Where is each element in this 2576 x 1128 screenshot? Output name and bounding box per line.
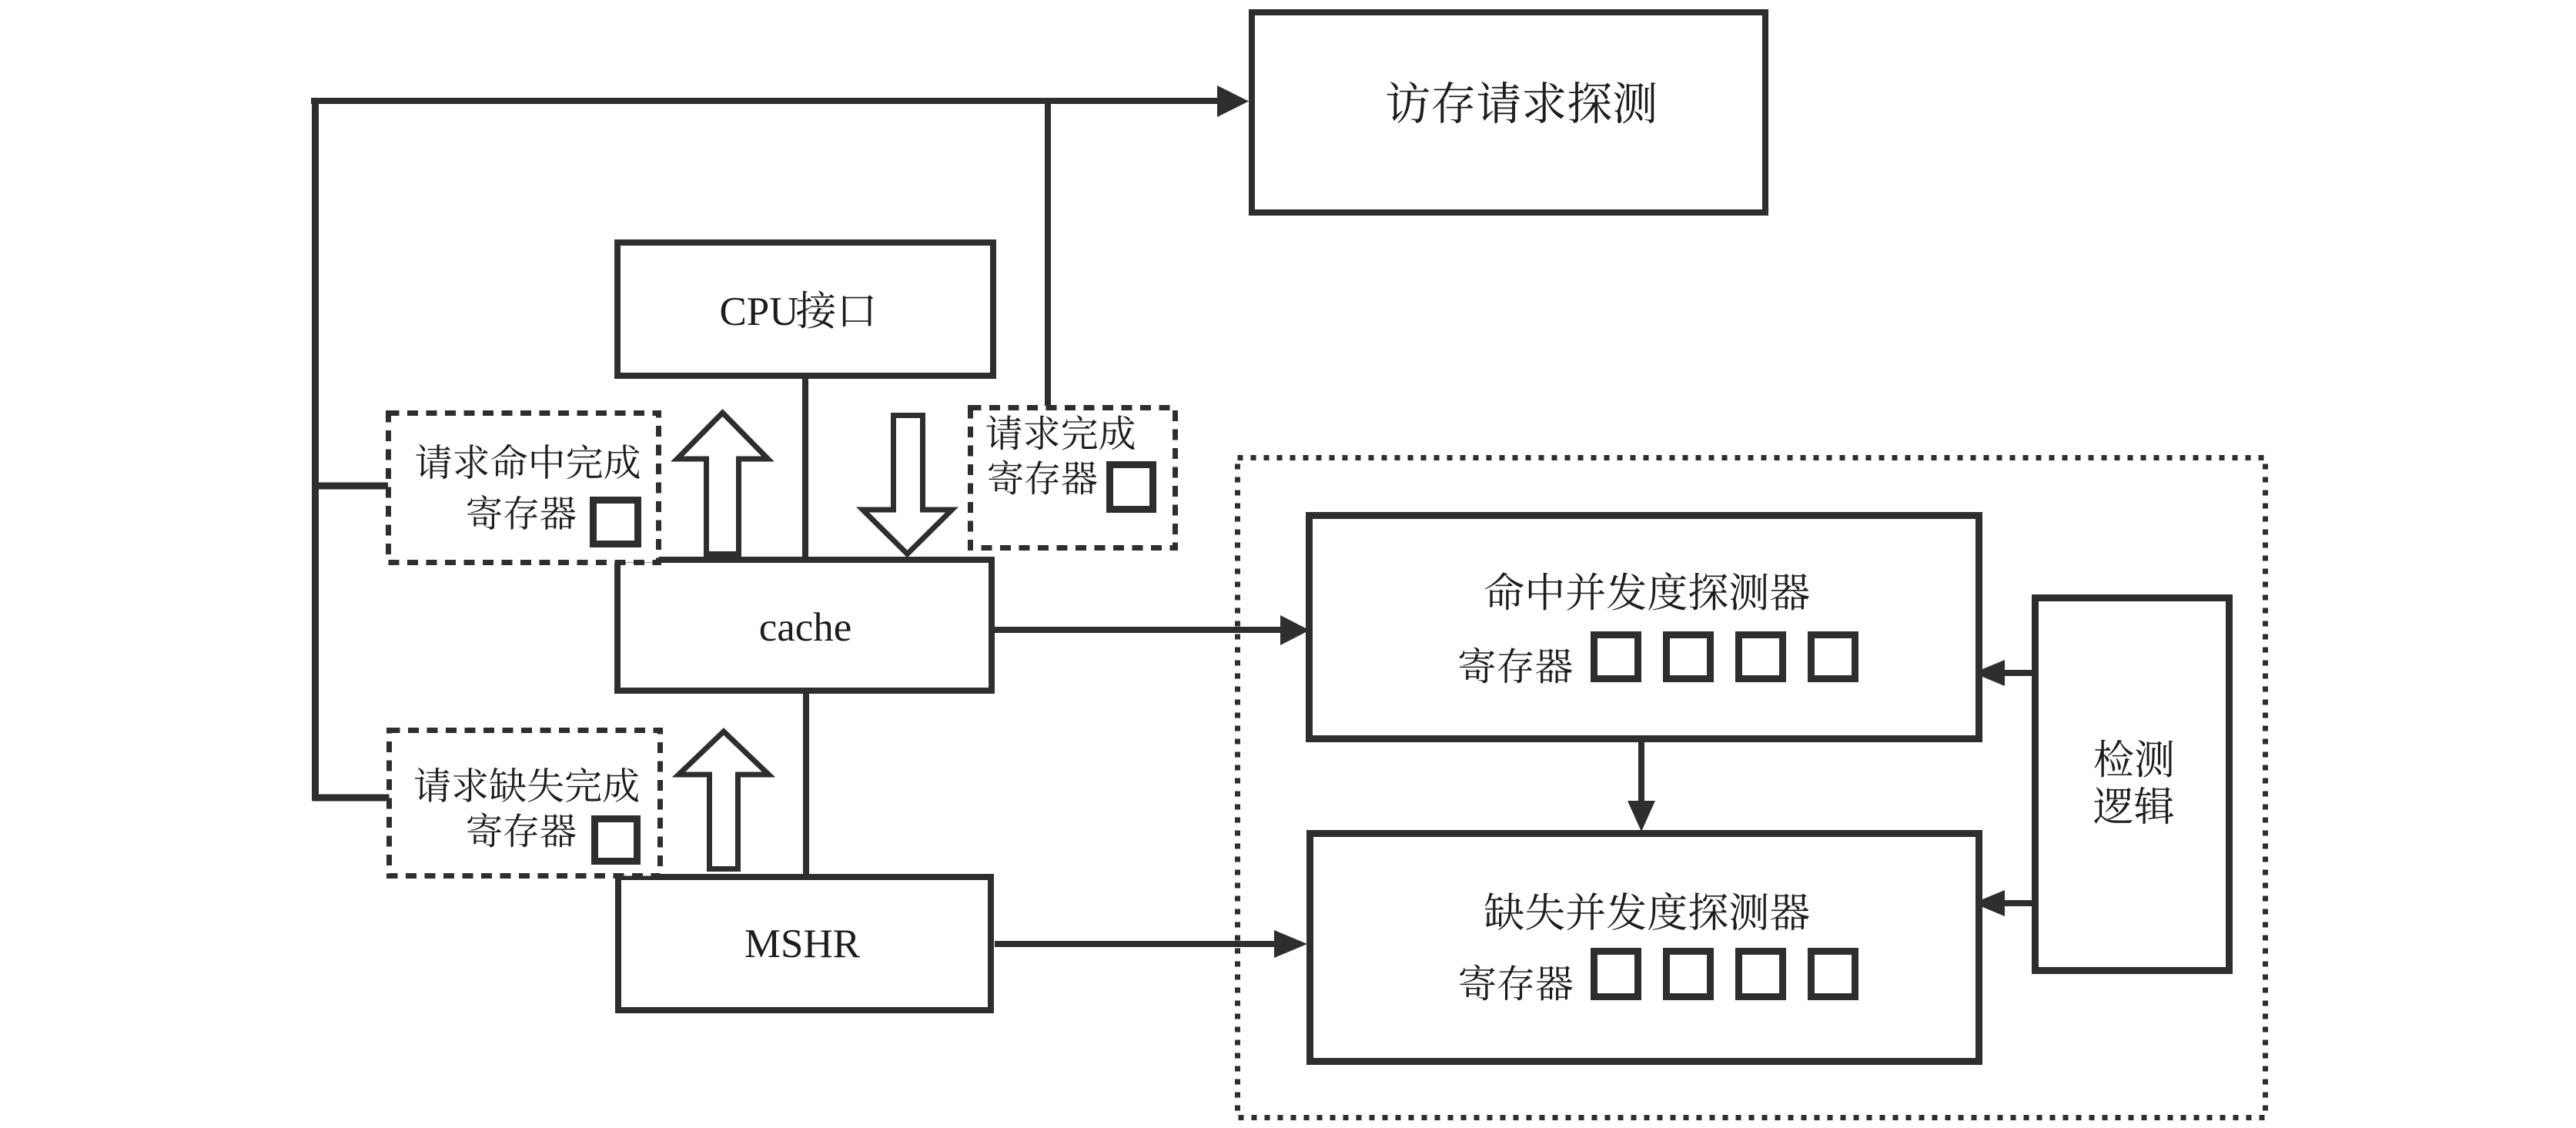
label: 寄存器 in miss detector bbox=[1460, 965, 1572, 1001]
wire: top bus from left riser to detection box bbox=[311, 98, 1219, 104]
svg-text:CPU: CPU bbox=[719, 290, 798, 334]
register cell 2 in hit detector bbox=[1667, 635, 1711, 679]
label: 命中并发度探测器 bbox=[1485, 572, 1809, 611]
label: 接口 (interface, after CPU) bbox=[797, 291, 873, 329]
label: 寄存器 line 2 of miss-complete box bbox=[467, 813, 576, 848]
wire: stub to hit-complete register box bbox=[313, 483, 388, 490]
register square in miss-complete box bbox=[595, 819, 637, 862]
wire: cache to MSHR bbox=[803, 692, 809, 875]
box: MSHR bbox=[618, 877, 991, 1010]
label: 请求完成 line 1 bbox=[986, 415, 1134, 450]
wire+arrow: detection logic to hit detector bbox=[2004, 670, 2033, 676]
wire: CPU interface to cache bbox=[802, 377, 808, 558]
svg-text:cache: cache bbox=[759, 605, 852, 650]
register square in request-complete box bbox=[1110, 465, 1153, 510]
dotted region box bbox=[1238, 458, 2266, 1118]
wire: branch down to request-complete register box bbox=[1045, 99, 1051, 407]
label: 逻辑 bbox=[2094, 787, 2173, 824]
dashed box: request hit complete register bbox=[389, 413, 659, 563]
label: 寄存器 in hit detector bbox=[1460, 648, 1572, 684]
label: 访存请求探测 (memory access request detection) bbox=[1387, 82, 1656, 123]
box: CPU interface bbox=[617, 243, 993, 376]
wire+arrow: hit detector down to miss detector bbox=[1638, 739, 1644, 802]
label: 请求命中完成 line 1 bbox=[416, 444, 639, 479]
wire+arrow: MSHR to miss concurrency detector bbox=[995, 941, 1276, 947]
register cell 4 in miss detector bbox=[1812, 952, 1855, 997]
box: miss concurrency detector bbox=[1310, 834, 1979, 1062]
wire: left vertical riser bbox=[312, 98, 319, 801]
hollow down arrow: CPU interface to cache bbox=[863, 416, 952, 554]
register cell 4 in hit detector bbox=[1812, 635, 1855, 679]
wire+arrow: cache to hit concurrency detector bbox=[993, 627, 1283, 633]
register cell 1 in miss detector bbox=[1594, 952, 1638, 997]
register cell 3 in hit detector bbox=[1739, 635, 1783, 679]
dashed box: request complete register bbox=[971, 408, 1176, 548]
label: 请求缺失完成 line 1 bbox=[415, 768, 638, 802]
wire: stub to miss-complete register box bbox=[313, 795, 390, 802]
register cell 2 in miss detector bbox=[1667, 952, 1711, 997]
label: 寄存器 line 2 of hit-complete box bbox=[467, 495, 576, 530]
register cell 1 in hit detector bbox=[1594, 635, 1638, 679]
label: 检测 bbox=[2095, 740, 2173, 778]
svg-text:MSHR: MSHR bbox=[744, 922, 861, 966]
box: cache bbox=[617, 560, 992, 691]
box: hit concurrency detector bbox=[1310, 516, 1979, 739]
label: 缺失并发度探测器 bbox=[1485, 892, 1809, 931]
register square in hit-complete box bbox=[594, 500, 638, 544]
box: detection logic bbox=[2036, 598, 2230, 971]
hollow up arrow: cache to CPU interface bbox=[677, 413, 768, 554]
box: memory access request detection bbox=[1252, 12, 1765, 213]
dashed box: request miss complete register bbox=[390, 731, 661, 876]
register cell 3 in miss detector bbox=[1739, 952, 1783, 997]
hollow up arrow: MSHR to cache bbox=[679, 731, 769, 869]
wire+arrow: detection logic to miss detector bbox=[2004, 900, 2033, 906]
arrowhead into top-right box bbox=[1217, 85, 1249, 117]
label: 寄存器 line 2 of request-complete box bbox=[989, 460, 1097, 495]
